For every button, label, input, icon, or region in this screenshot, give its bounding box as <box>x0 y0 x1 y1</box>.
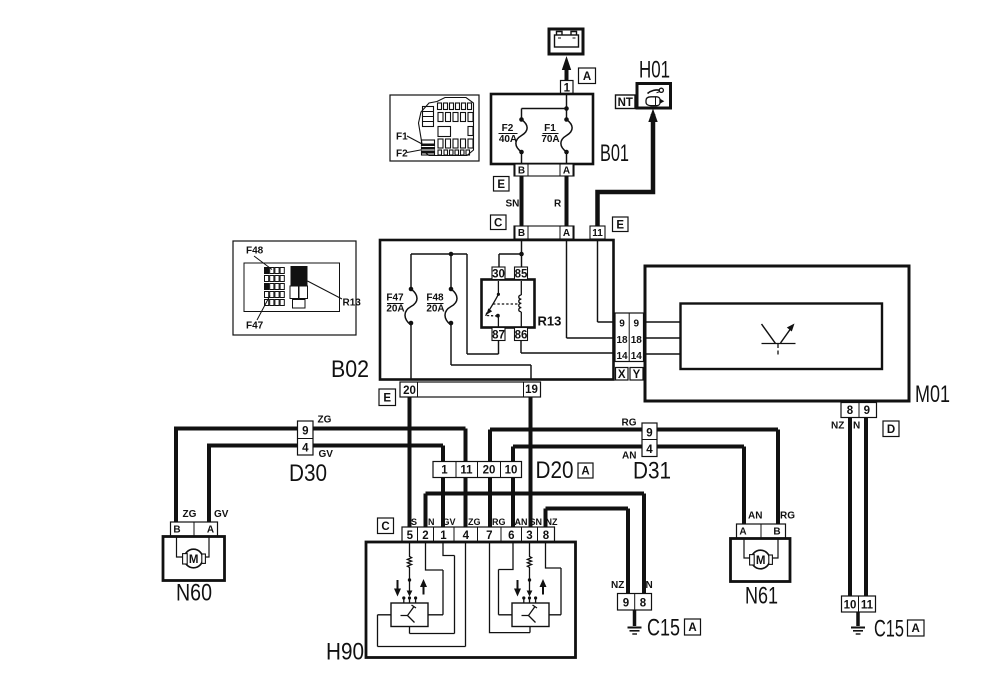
svg-text:NT: NT <box>618 97 633 109</box>
svg-text:1: 1 <box>564 83 571 95</box>
svg-text:A: A <box>583 71 591 83</box>
svg-text:8: 8 <box>543 530 550 542</box>
svg-text:20A: 20A <box>426 304 444 315</box>
svg-text:RG: RG <box>780 511 795 522</box>
svg-text:D30: D30 <box>289 460 327 487</box>
svg-text:N61: N61 <box>745 583 778 610</box>
svg-text:5: 5 <box>407 530 414 542</box>
svg-text:4: 4 <box>463 530 470 542</box>
svg-text:2: 2 <box>422 530 428 542</box>
svg-text:F48: F48 <box>426 293 444 304</box>
svg-text:GV: GV <box>214 509 229 520</box>
svg-text:14: 14 <box>631 351 643 362</box>
svg-text:10: 10 <box>505 465 518 477</box>
svg-text:C15: C15 <box>647 615 680 642</box>
svg-text:9: 9 <box>619 319 625 330</box>
svg-text:D: D <box>887 424 895 436</box>
svg-text:18: 18 <box>616 335 628 346</box>
svg-text:10: 10 <box>844 600 857 612</box>
svg-text:8: 8 <box>640 598 647 610</box>
svg-text:SN: SN <box>506 199 520 210</box>
svg-text:85: 85 <box>515 269 528 281</box>
svg-text:R: R <box>554 199 562 210</box>
svg-text:R13: R13 <box>538 314 562 329</box>
svg-text:H01: H01 <box>639 57 670 84</box>
svg-text:20: 20 <box>403 385 416 397</box>
svg-text:H90: H90 <box>326 639 364 666</box>
svg-text:A: A <box>739 527 746 538</box>
svg-text:D20: D20 <box>536 457 574 484</box>
svg-text:AN: AN <box>622 451 636 462</box>
svg-text:3: 3 <box>526 530 532 542</box>
svg-text:A: A <box>581 466 589 478</box>
svg-text:N: N <box>853 421 860 432</box>
svg-text:6: 6 <box>508 530 514 542</box>
svg-text:A: A <box>912 623 920 635</box>
svg-text:7: 7 <box>486 530 492 542</box>
svg-text:B01: B01 <box>600 140 629 167</box>
svg-text:9: 9 <box>634 319 640 330</box>
svg-text:ZG: ZG <box>318 415 332 426</box>
svg-text:M01: M01 <box>915 381 950 408</box>
svg-text:ZG: ZG <box>468 517 481 527</box>
svg-text:C: C <box>494 218 502 230</box>
svg-text:NZ: NZ <box>831 421 844 432</box>
svg-text:RG: RG <box>622 418 637 429</box>
svg-text:B: B <box>173 525 180 536</box>
svg-text:86: 86 <box>515 330 528 342</box>
svg-text:19: 19 <box>525 384 538 396</box>
svg-text:11: 11 <box>460 465 473 477</box>
svg-text:1: 1 <box>440 530 447 542</box>
svg-text:87: 87 <box>492 330 505 342</box>
svg-text:M: M <box>189 554 199 566</box>
svg-text:9: 9 <box>623 598 629 610</box>
svg-text:S: S <box>411 517 417 527</box>
svg-text:SN: SN <box>530 517 543 527</box>
svg-text:ZG: ZG <box>183 509 197 520</box>
svg-text:40A: 40A <box>499 134 517 145</box>
svg-text:AN: AN <box>748 511 762 522</box>
svg-text:30: 30 <box>492 269 505 281</box>
svg-text:N: N <box>646 580 653 591</box>
svg-text:F2: F2 <box>396 149 408 160</box>
svg-text:1: 1 <box>441 465 448 477</box>
svg-text:E: E <box>616 220 624 232</box>
svg-text:C15: C15 <box>874 616 904 643</box>
svg-text:Y: Y <box>633 369 641 381</box>
svg-text:F1: F1 <box>544 123 556 134</box>
svg-text:B02: B02 <box>331 356 369 383</box>
svg-text:AN: AN <box>515 517 528 527</box>
svg-text:4: 4 <box>646 444 653 456</box>
svg-text:GV: GV <box>319 449 334 460</box>
svg-text:D31: D31 <box>633 458 671 485</box>
svg-text:E: E <box>497 179 505 191</box>
svg-text:X: X <box>618 369 626 381</box>
svg-text:20A: 20A <box>386 304 404 315</box>
svg-text:N: N <box>428 517 435 527</box>
svg-text:A: A <box>563 228 570 239</box>
svg-text:E: E <box>383 393 391 405</box>
svg-text:B: B <box>773 527 780 538</box>
svg-text:9: 9 <box>302 426 308 438</box>
svg-text:9: 9 <box>864 405 870 417</box>
svg-text:4: 4 <box>302 443 309 455</box>
svg-text:RG: RG <box>492 517 506 527</box>
svg-text:20: 20 <box>483 465 496 477</box>
svg-text:F1: F1 <box>396 132 408 143</box>
svg-text:C: C <box>381 521 389 533</box>
svg-text:9: 9 <box>646 428 652 440</box>
svg-text:F2: F2 <box>502 123 514 134</box>
svg-text:11: 11 <box>861 600 874 612</box>
svg-text:A: A <box>207 525 214 536</box>
svg-text:R13: R13 <box>343 298 362 309</box>
svg-text:70A: 70A <box>541 134 559 145</box>
svg-text:14: 14 <box>616 351 628 362</box>
svg-text:F47: F47 <box>386 293 404 304</box>
svg-text:N60: N60 <box>176 580 212 607</box>
svg-text:11: 11 <box>592 228 603 239</box>
svg-text:F48: F48 <box>246 246 264 257</box>
svg-text:NZ: NZ <box>611 580 624 591</box>
svg-text:F47: F47 <box>246 321 264 332</box>
svg-text:M: M <box>756 555 766 567</box>
svg-text:NZ: NZ <box>546 517 558 527</box>
svg-text:8: 8 <box>847 405 854 417</box>
svg-text:A: A <box>563 166 570 177</box>
svg-text:GV: GV <box>443 517 456 527</box>
svg-text:A: A <box>688 622 696 634</box>
svg-text:B: B <box>518 228 525 239</box>
svg-text:B: B <box>518 166 525 177</box>
svg-text:18: 18 <box>631 335 643 346</box>
